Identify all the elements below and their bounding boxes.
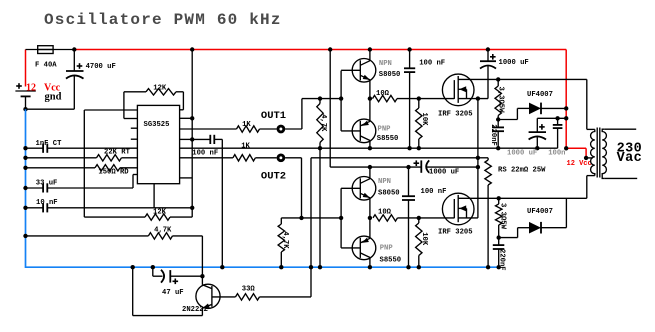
svg-text:12K: 12K — [153, 209, 167, 217]
wire caps top line to red — [537, 117, 566, 119]
svg-text:10 nF: 10 nF — [36, 199, 58, 207]
capacitor 1000uF (near transformer) — [536, 118, 538, 132]
wire line B down to 33 ohm — [310, 158, 312, 297]
svg-text:2N2222: 2N2222 — [182, 306, 208, 314]
transformer core — [596, 128, 598, 178]
resistor 150 ohm RD — [26, 167, 96, 169]
svg-text:S8550: S8550 — [380, 257, 402, 265]
resistor 4,7K (pulldown OUT2 drive) — [280, 218, 282, 224]
capacitor 220nF (snubber2) — [493, 244, 505, 246]
wire red to transformer center tap — [566, 147, 586, 149]
svg-text:10K: 10K — [420, 232, 428, 246]
svg-text:1K: 1K — [242, 121, 251, 129]
capacitor 33uF — [26, 187, 44, 189]
svg-text:100 nF: 100 nF — [419, 60, 445, 68]
svg-text:UF4007: UF4007 — [527, 208, 553, 216]
resistor 12K (top) — [146, 89, 176, 95]
fuse F 40A — [26, 49, 74, 51]
capacitor 1000uF (top right) — [487, 50, 489, 62]
svg-text:OUT2: OUT2 — [261, 170, 286, 182]
op-amp U1 SG3525 box — [137, 105, 179, 183]
resistor 10 ohm (gate2) — [373, 215, 398, 221]
node center tap 12 Vcc — [586, 157, 593, 159]
transformer secondary — [602, 129, 606, 178]
resistor 10 ohm (gate1) — [373, 95, 398, 101]
wire tied sources vertical — [477, 99, 479, 218]
svg-text:4,7K: 4,7K — [281, 231, 289, 249]
resistor 10K (gate1 pulldown) — [418, 99, 420, 108]
diode UF4007 (clamp1) — [498, 119, 517, 121]
wire Vcc feed: rail to IC right pins — [191, 50, 193, 208]
capacitor 100nF (driver2 supply) — [408, 167, 410, 196]
svg-text:100 nF: 100 nF — [421, 188, 447, 196]
svg-text:PNP: PNP — [378, 125, 392, 133]
wire ground bus (blue) — [26, 109, 500, 267]
svg-text:3,3Ω5W: 3,3Ω5W — [497, 87, 505, 114]
resistor RS 22mohm 25W — [478, 157, 488, 159]
capacitor 1000uF (driver2 supply, inline) — [420, 160, 422, 172]
wire ground line A — [180, 147, 558, 149]
wire driver1 base vertical — [340, 71, 342, 131]
wire OUT1 to driver1 input — [285, 128, 302, 130]
svg-text:S8050: S8050 — [378, 189, 400, 197]
resistor 1K (OUT1) — [180, 128, 237, 130]
wire IC bottom pin to 12K loop — [153, 184, 155, 208]
wire 4,7K line down to 2N2222 collector — [201, 236, 203, 276]
svg-text:3,3Ω5W: 3,3Ω5W — [498, 203, 506, 230]
wire red branch from battery + up to fuse — [25, 50, 27, 87]
svg-text:RS 22mΩ 25W: RS 22mΩ 25W — [498, 167, 546, 175]
svg-text:4,7K: 4,7K — [319, 114, 327, 132]
svg-text:PNP: PNP — [380, 244, 394, 252]
svg-text:1nF CT: 1nF CT — [36, 140, 63, 148]
svg-text:10K: 10K — [420, 113, 428, 127]
svg-text:gnd: gnd — [45, 91, 62, 102]
wire IC pin to 33uF line — [132, 175, 134, 189]
transistor Q5 2N2222 — [196, 284, 220, 308]
resistor 1K (OUT2) — [180, 157, 233, 159]
wire battery minus to gnd net — [26, 108, 75, 110]
svg-text:UF4007: UF4007 — [527, 91, 553, 99]
svg-text:1000 uF: 1000 uF — [499, 59, 529, 67]
wire top feedback loop with 12K — [84, 109, 137, 111]
wire drain2 rail to transformer — [458, 197, 587, 199]
resistor 33 ohm — [236, 294, 260, 300]
wire driver2 base vertical — [340, 188, 342, 248]
transistor M1 IRF3205 — [442, 74, 474, 106]
svg-text:12K: 12K — [153, 84, 167, 92]
wire left box vertical — [83, 110, 85, 217]
svg-text:1000 uF: 1000 uF — [429, 168, 459, 176]
svg-text:220nF: 220nF — [489, 124, 497, 146]
transistor Q4 PNP S8550 — [352, 236, 376, 260]
resistor 3,3ohm 5W (snubber2) — [498, 198, 500, 204]
resistor 22K RT — [26, 157, 97, 159]
resistor 3,3ohm 5W (snubber1) — [497, 79, 499, 86]
capacitor 220nF (snubber1) — [493, 126, 505, 128]
capacitor 100nF (pin3) — [192, 138, 210, 140]
svg-text:Vac: Vac — [617, 151, 643, 166]
pin stubs left side — [131, 127, 138, 129]
svg-text:S8050: S8050 — [379, 71, 401, 79]
svg-text:1000 uF: 1000 uF — [507, 149, 537, 157]
transistor M2 IRF3205 — [442, 193, 474, 225]
svg-text:47 uF: 47 uF — [162, 289, 184, 297]
svg-text:OUT1: OUT1 — [261, 110, 286, 122]
wire ground line A tie to blue bus — [319, 148, 321, 267]
svg-text:12 Vcc: 12 Vcc — [567, 160, 592, 168]
svg-text:10Ω: 10Ω — [376, 90, 390, 98]
transistor Q1 NPN S8050 — [352, 59, 376, 83]
wire emitter to ground loop — [133, 315, 203, 317]
capacitor 1nF CT — [26, 147, 44, 149]
wire line B (RS sense return) — [311, 157, 478, 159]
wire red vertical right side down to transformer area — [565, 50, 567, 149]
svg-text:F 40A: F 40A — [35, 62, 57, 70]
svg-text:NPN: NPN — [378, 178, 391, 186]
terminal OUT1 — [278, 126, 284, 132]
svg-text:1K: 1K — [241, 142, 250, 150]
svg-text:4700 uF: 4700 uF — [86, 63, 116, 71]
transformer T1 — [586, 79, 588, 129]
svg-text:33 uF: 33 uF — [36, 179, 58, 187]
svg-text:150Ω RD: 150Ω RD — [98, 168, 129, 176]
resistor 12K (bottom) — [84, 216, 145, 218]
diode UF4007 (clamp2) — [499, 237, 518, 239]
capacitor 100nF (near transformer) — [557, 118, 559, 125]
capacitor 10nF — [26, 207, 44, 209]
svg-text:12: 12 — [26, 82, 36, 93]
wire source1 to sense node — [458, 98, 488, 100]
svg-text:33Ω: 33Ω — [242, 286, 256, 294]
transistor Q3 NPN S8050 — [352, 177, 376, 201]
wire OUT2 to driver2 input — [285, 157, 301, 159]
capacitor 100nF (driver1 supply) — [409, 50, 411, 69]
wire +12V branch to driver2 (line C) — [329, 50, 331, 168]
svg-text:4,7K: 4,7K — [154, 227, 172, 235]
wire secondary leads 230Vac — [605, 128, 636, 130]
resistor 4,7K (left, to 2N2222 collector) — [26, 235, 149, 237]
resistor 10K (gate2 pulldown) — [418, 218, 420, 223]
resistor 4,7K (pulldown OUT1 drive) — [319, 99, 321, 104]
svg-text:100 nF: 100 nF — [192, 149, 218, 157]
terminal OUT2 — [278, 155, 284, 161]
svg-text:10Ω: 10Ω — [378, 209, 392, 217]
svg-text:100n: 100n — [548, 149, 565, 157]
battery 12V — [15, 90, 35, 92]
svg-text:IRF 3205: IRF 3205 — [438, 111, 473, 119]
svg-text:22K RT: 22K RT — [104, 148, 131, 156]
svg-text:IRF 3205: IRF 3205 — [438, 229, 473, 237]
capacitor 47uF soft start — [152, 267, 154, 276]
svg-text:NPN: NPN — [379, 60, 392, 68]
wire +12V top rail (red) — [74, 49, 567, 51]
wire source2 corner — [458, 217, 478, 219]
svg-text:Oscillatore PWM 60 kHz: Oscillatore PWM 60 kHz — [44, 11, 282, 29]
capacitor 4700uF — [73, 50, 75, 72]
svg-text:S8550: S8550 — [377, 135, 399, 143]
svg-text:220nF: 220nF — [498, 249, 506, 271]
svg-text:SG3525: SG3525 — [144, 121, 170, 129]
transistor Q2 PNP S8550 — [352, 119, 376, 143]
wire drain1 rail to transformer — [458, 78, 587, 80]
